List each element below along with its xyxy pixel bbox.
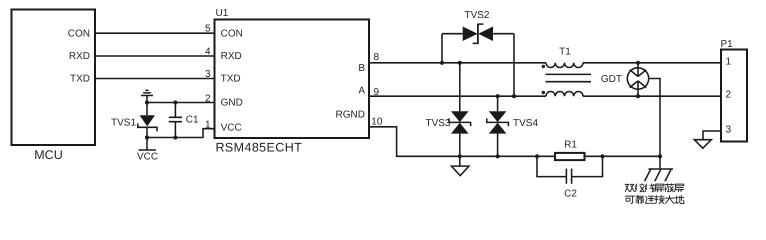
svg-text:T1: T1 — [559, 47, 571, 58]
svg-text:RXD: RXD — [69, 51, 90, 62]
svg-text:MCU: MCU — [34, 148, 62, 162]
svg-text:TVS1: TVS1 — [111, 117, 136, 128]
svg-text:2: 2 — [205, 94, 211, 105]
svg-text:R1: R1 — [564, 139, 577, 150]
svg-text:GDT: GDT — [601, 74, 622, 85]
svg-text:1: 1 — [726, 56, 732, 67]
svg-text:1: 1 — [205, 120, 211, 131]
svg-text:3: 3 — [205, 69, 211, 80]
svg-text:U1: U1 — [216, 8, 229, 19]
svg-text:TVS2: TVS2 — [464, 10, 489, 21]
svg-text:CON: CON — [221, 28, 243, 39]
svg-text:3: 3 — [726, 124, 732, 135]
svg-text:5: 5 — [205, 24, 211, 35]
svg-text:C2: C2 — [564, 188, 577, 199]
svg-text:B: B — [358, 63, 365, 74]
svg-text:GND: GND — [221, 98, 243, 109]
svg-text:8: 8 — [374, 52, 380, 63]
svg-text:4: 4 — [205, 47, 211, 58]
svg-text:TVS3: TVS3 — [425, 118, 450, 129]
svg-text:TVS4: TVS4 — [513, 118, 538, 129]
svg-text:RGND: RGND — [336, 109, 365, 120]
svg-text:2: 2 — [726, 89, 732, 100]
svg-text:P1: P1 — [721, 39, 734, 50]
svg-text:TXD: TXD — [221, 74, 241, 85]
svg-text:RXD: RXD — [221, 51, 242, 62]
svg-text:RSM485ECHT: RSM485ECHT — [216, 140, 303, 154]
svg-text:10: 10 — [371, 117, 383, 128]
svg-text:C1: C1 — [186, 115, 199, 126]
svg-text:CON: CON — [68, 28, 90, 39]
svg-text:A: A — [358, 85, 365, 96]
svg-text:TXD: TXD — [70, 74, 90, 85]
svg-text:9: 9 — [374, 87, 380, 98]
svg-text:VCC: VCC — [137, 152, 158, 163]
svg-text:VCC: VCC — [221, 123, 242, 134]
